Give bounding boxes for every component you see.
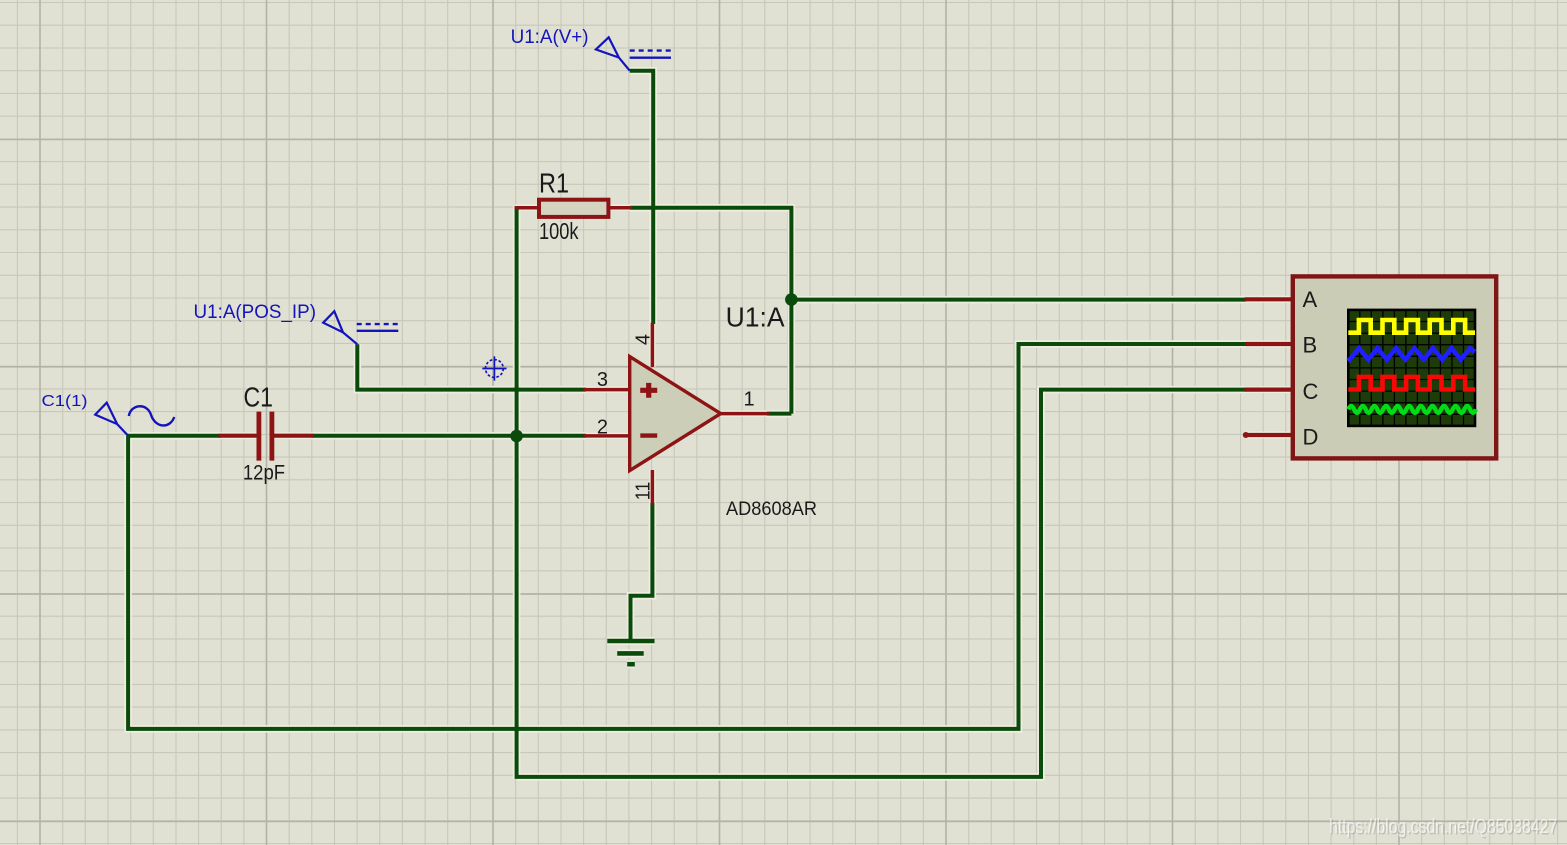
svg-text:B: B <box>1303 332 1318 357</box>
svg-text:A: A <box>1303 287 1318 312</box>
svg-text:R1: R1 <box>539 168 569 199</box>
svg-text:https://blog.csdn.net/Q8503842: https://blog.csdn.net/Q85038427 <box>1329 815 1557 838</box>
svg-text:C1: C1 <box>244 381 274 412</box>
svg-text:2: 2 <box>597 416 608 438</box>
svg-text:12pF: 12pF <box>243 461 285 484</box>
svg-text:U1:A(POS_IP): U1:A(POS_IP) <box>194 301 317 323</box>
svg-text:AD8608AR: AD8608AR <box>726 498 817 520</box>
svg-text:U1:A(V+): U1:A(V+) <box>511 27 589 48</box>
svg-text:4: 4 <box>633 334 655 345</box>
svg-text:100k: 100k <box>539 218 579 244</box>
svg-text:C: C <box>1303 379 1319 404</box>
svg-text:D: D <box>1303 425 1319 450</box>
svg-text:C1(1): C1(1) <box>42 393 88 410</box>
svg-text:U1:A: U1:A <box>726 302 786 333</box>
svg-text:3: 3 <box>597 369 608 391</box>
svg-text:11: 11 <box>633 482 655 501</box>
svg-text:1: 1 <box>743 389 754 411</box>
